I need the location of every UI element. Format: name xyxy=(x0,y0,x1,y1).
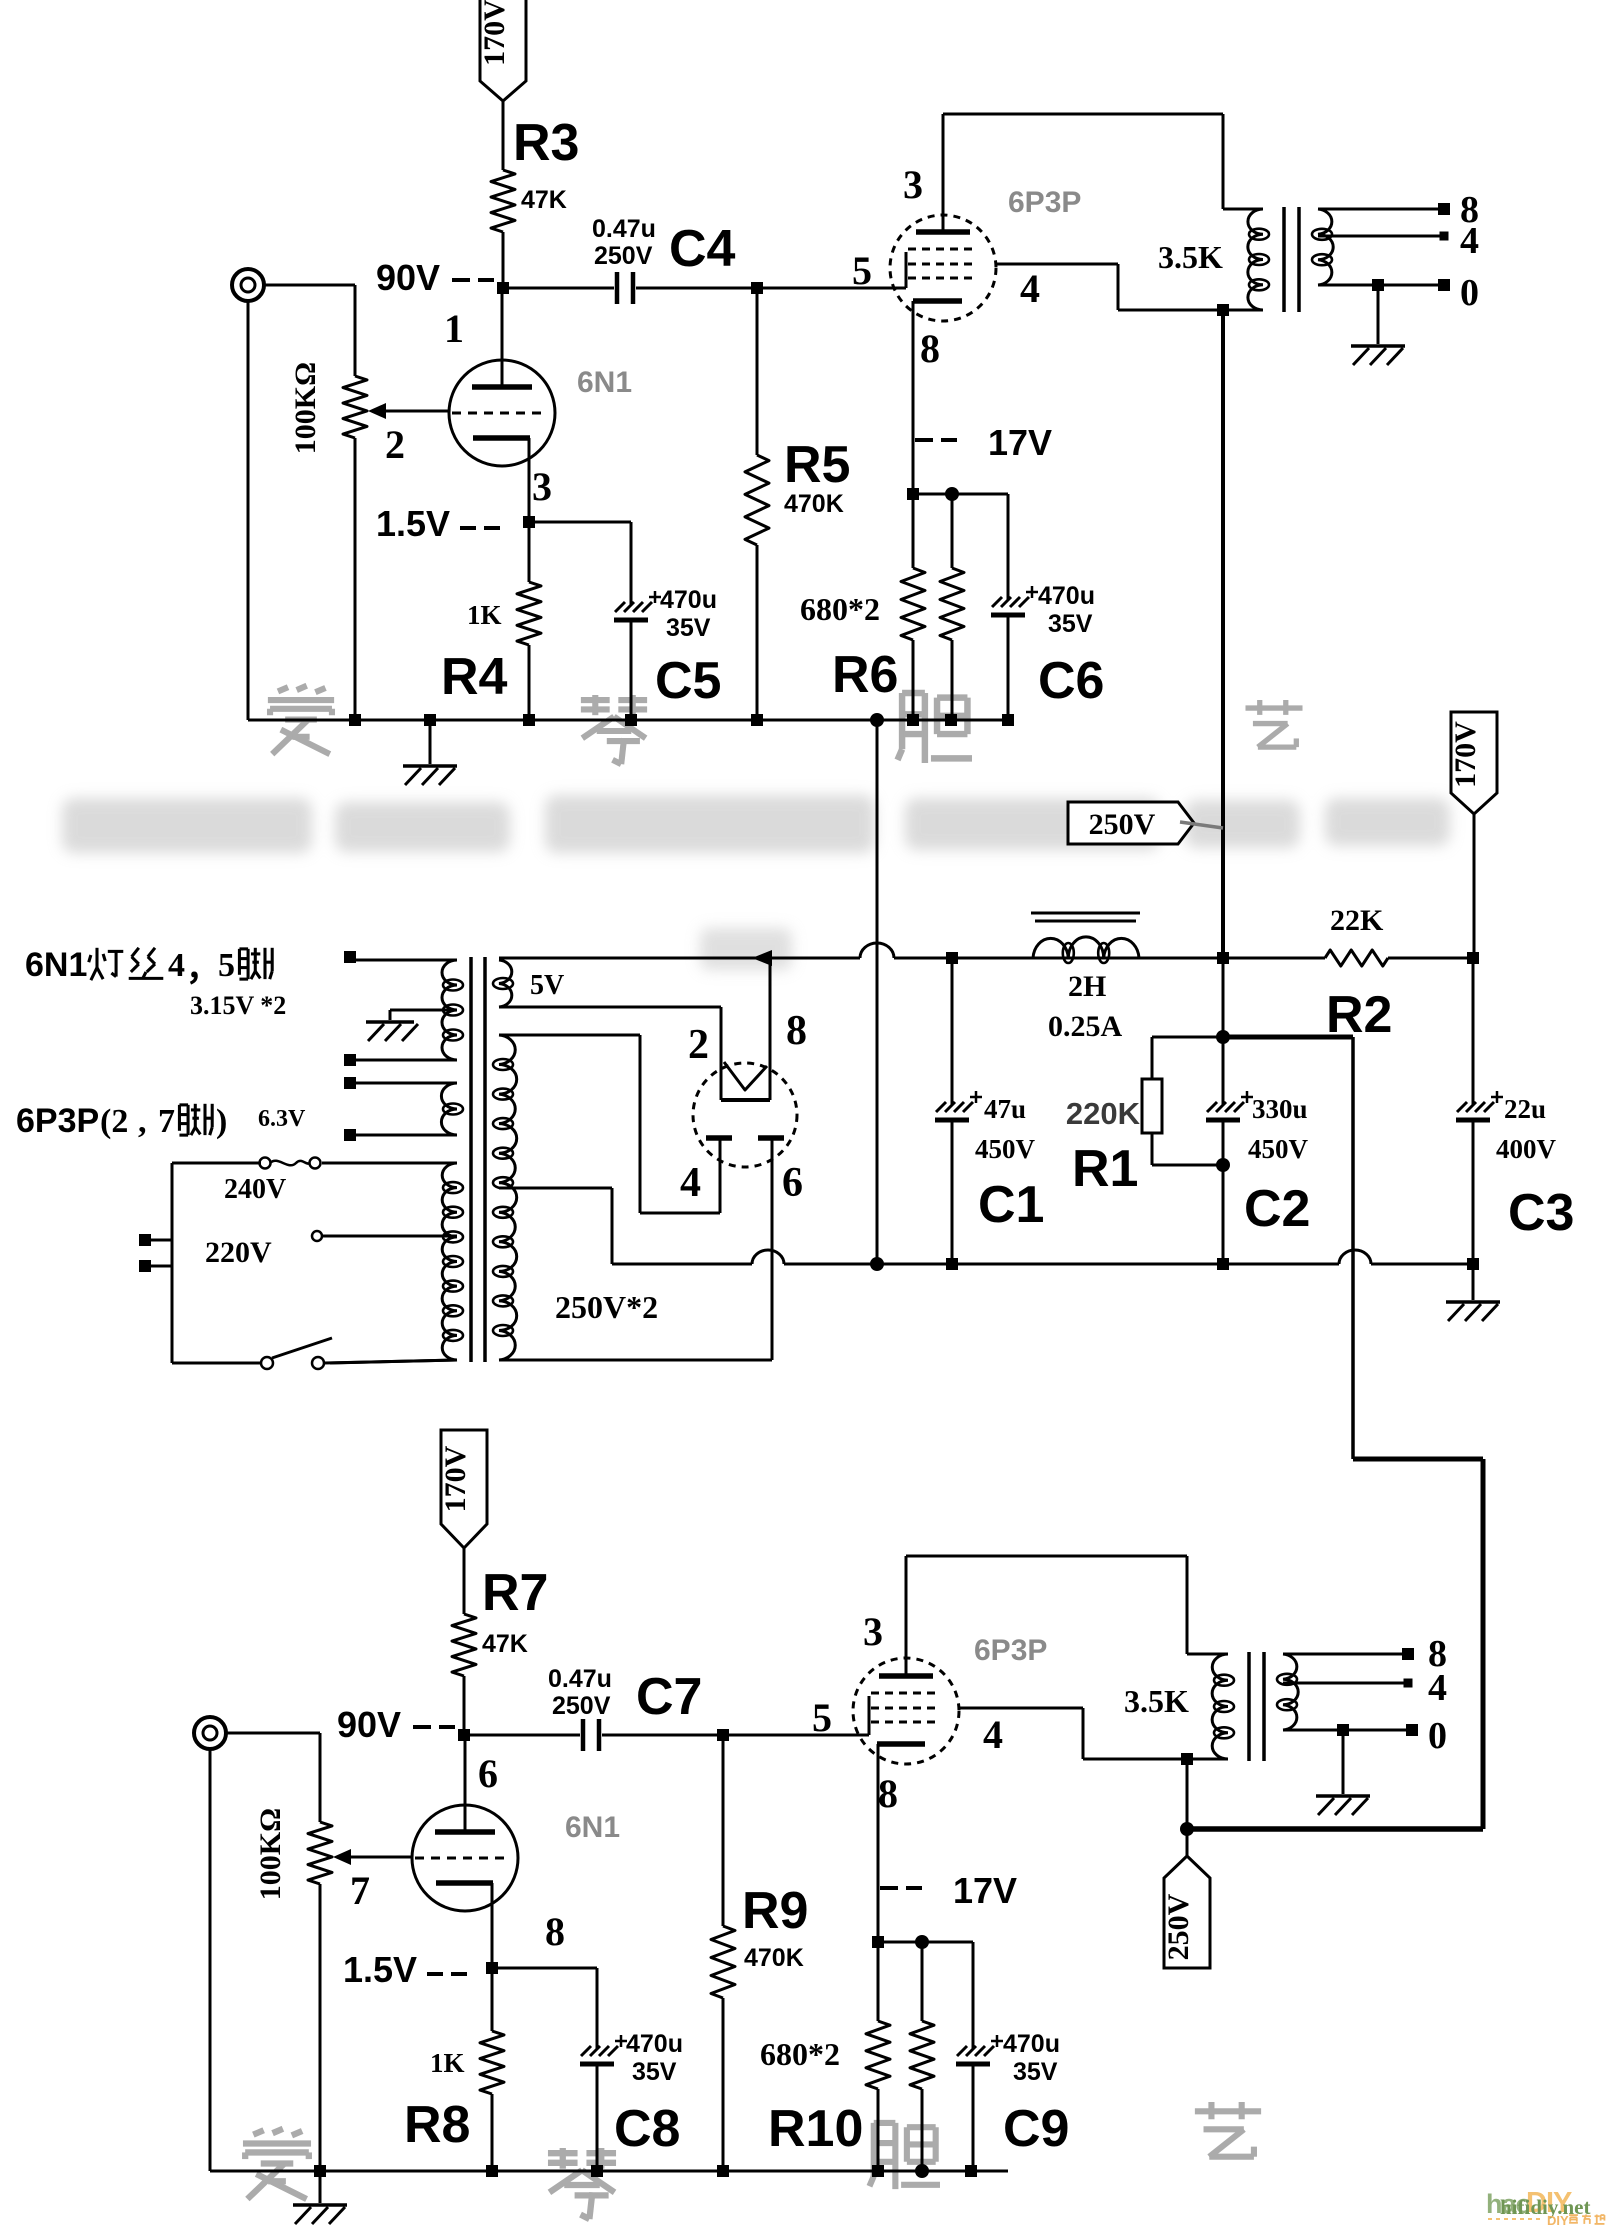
svg-text:250V: 250V xyxy=(552,1692,611,1720)
svg-text:2: 2 xyxy=(385,422,405,467)
svg-text:4: 4 xyxy=(1020,266,1040,311)
wire preamp ground drop xyxy=(870,720,884,1271)
potentiometer 100K (top) xyxy=(289,285,450,720)
svg-text:8: 8 xyxy=(920,326,940,371)
svg-text:C6: C6 xyxy=(1038,652,1104,710)
node 90V (top) xyxy=(376,257,494,298)
svg-text:6N1: 6N1 xyxy=(25,946,87,984)
capacitor C9 xyxy=(956,1942,1069,2171)
svg-text:47K: 47K xyxy=(482,1630,528,1658)
node 1.5V (top) xyxy=(376,503,535,544)
svg-text:170V: 170V xyxy=(439,1445,472,1512)
svg-text:8: 8 xyxy=(545,1909,565,1954)
capacitor C3 xyxy=(1456,958,1574,1270)
wire xyxy=(502,232,505,288)
ground (top OPT) xyxy=(1351,279,1405,365)
svg-text:240V: 240V xyxy=(224,1174,286,1205)
node F junction xyxy=(872,1935,973,1949)
svg-text:0.25A: 0.25A xyxy=(1048,1010,1123,1043)
wire xyxy=(464,1734,580,1737)
node 220V tap xyxy=(205,1231,457,1269)
svg-text:,: , xyxy=(138,1103,147,1140)
watermark blur band xyxy=(62,795,1450,970)
svg-text:6: 6 xyxy=(478,1751,498,1796)
wire xyxy=(463,1548,466,1614)
wire plate top (bottom) xyxy=(906,1555,1187,1558)
node A junction xyxy=(497,282,509,294)
capacitor C6 xyxy=(991,494,1104,720)
wire B+ drop (top OPT to supply) xyxy=(1221,310,1225,958)
node B junction xyxy=(751,282,763,294)
ground (main bus right) xyxy=(1446,1264,1500,1321)
triode U1 6N1 (top) xyxy=(444,288,632,522)
resistor R7 xyxy=(452,1564,548,1676)
transformer T3 power core xyxy=(471,957,485,1362)
svg-text:17V: 17V xyxy=(988,422,1052,463)
svg-text:220K: 220K xyxy=(1066,1096,1141,1131)
svg-text:47K: 47K xyxy=(521,186,567,214)
label 6N1 heater xyxy=(25,946,272,988)
wire xyxy=(264,284,355,287)
svg-text:6: 6 xyxy=(782,1160,803,1206)
node 17V (top) xyxy=(915,422,1052,463)
svg-text:1K: 1K xyxy=(467,600,502,630)
resistor R6 xyxy=(800,494,925,720)
svg-text:0.47u: 0.47u xyxy=(548,1665,612,1693)
svg-text:250V: 250V xyxy=(1089,808,1156,841)
svg-text:，: ， xyxy=(186,951,220,988)
node D junction xyxy=(458,1729,470,1741)
input jack (bottom) xyxy=(194,1717,226,1749)
wire xyxy=(723,1734,869,1737)
svg-text:22u: 22u xyxy=(1504,1094,1546,1124)
svg-text:8: 8 xyxy=(878,1771,898,1816)
svg-text:(2: (2 xyxy=(100,1103,128,1140)
winding 6.3V xyxy=(344,1077,463,1141)
svg-text:4: 4 xyxy=(680,1160,701,1206)
svg-text:220V: 220V xyxy=(205,1236,272,1269)
winding mains primary xyxy=(322,1163,463,1363)
resistor R8 xyxy=(404,1968,504,2171)
node 90V (bottom) xyxy=(337,1704,455,1745)
svg-text:6N1: 6N1 xyxy=(577,366,632,399)
svg-text:330u: 330u xyxy=(1252,1094,1308,1124)
resistor R9 xyxy=(711,1735,808,2171)
svg-text:C7: C7 xyxy=(636,1668,702,1726)
ground (filament center tap) xyxy=(366,1010,457,1041)
svg-text:5V: 5V xyxy=(530,970,564,1001)
svg-text:680*2: 680*2 xyxy=(760,2036,840,2072)
svg-text:C9: C9 xyxy=(1003,2100,1069,2158)
watermark row2 xyxy=(243,2102,1261,2219)
wire speaker taps (bottom) xyxy=(1283,1633,1447,1757)
winding 3.15V filament xyxy=(190,951,463,1066)
pentode V2 6P3P (bottom) xyxy=(812,1556,1047,1942)
node 17V (bottom) xyxy=(880,1870,1017,1911)
svg-text:35V: 35V xyxy=(666,614,711,642)
svg-text:R10: R10 xyxy=(768,2100,863,2158)
node E junction xyxy=(717,1729,729,1741)
capacitor C7 xyxy=(548,1665,702,1751)
switch S1 xyxy=(172,1338,457,1369)
ground symbol (bottom channel) xyxy=(293,2171,347,2224)
svg-text:DIY: DIY xyxy=(1547,2213,1569,2228)
svg-text:1.5V: 1.5V xyxy=(343,1949,417,1990)
svg-text:5: 5 xyxy=(852,248,872,293)
node 170V flag (bottom channel) xyxy=(439,1430,487,1548)
svg-text:1.5V: 1.5V xyxy=(376,503,450,544)
svg-text:4: 4 xyxy=(1460,220,1479,262)
svg-text:470K: 470K xyxy=(744,1944,804,1972)
rectifier V3 5Z4P xyxy=(680,958,807,1360)
svg-text:450V: 450V xyxy=(975,1134,1036,1164)
svg-text:R6: R6 xyxy=(832,646,898,704)
svg-text:100KΩ: 100KΩ xyxy=(254,1808,287,1900)
svg-text:6N1: 6N1 xyxy=(565,1811,620,1844)
svg-text:0: 0 xyxy=(1460,272,1479,314)
fuse F1 xyxy=(172,1158,321,1206)
svg-text:R4: R4 xyxy=(441,648,508,706)
resistor R3 xyxy=(491,114,579,232)
capacitor C5 xyxy=(529,522,721,720)
wire xyxy=(503,287,614,290)
svg-text:4: 4 xyxy=(1428,1667,1447,1709)
wire HV bottom to plate 6 xyxy=(499,1359,772,1362)
svg-text:35V: 35V xyxy=(632,2058,677,2086)
svg-text:2H: 2H xyxy=(1068,970,1106,1003)
svg-text:7: 7 xyxy=(158,1103,175,1140)
svg-text:C2: C2 xyxy=(1244,1180,1310,1238)
capacitor C4 xyxy=(592,215,736,304)
svg-text:5: 5 xyxy=(812,1695,832,1740)
svg-text:250V: 250V xyxy=(1162,1893,1195,1960)
svg-text:0.47u: 0.47u xyxy=(592,215,656,243)
input jack (top) xyxy=(232,269,264,301)
resistor R10b parallel xyxy=(910,1942,934,2171)
svg-text:): ) xyxy=(216,1103,227,1140)
svg-text:3: 3 xyxy=(863,1609,883,1654)
svg-text:C5: C5 xyxy=(655,652,721,710)
svg-text:R3: R3 xyxy=(513,114,579,172)
svg-text:R8: R8 xyxy=(404,2096,470,2154)
svg-text:7: 7 xyxy=(350,1868,370,1913)
node 170V flag (right) xyxy=(1449,712,1497,964)
capacitor C2 xyxy=(1206,958,1310,1270)
svg-text:R9: R9 xyxy=(742,1882,808,1940)
svg-text:1K: 1K xyxy=(430,2048,465,2078)
svg-text:C3: C3 xyxy=(1508,1184,1574,1242)
node 250V flag (middle) xyxy=(1068,802,1223,844)
wire xyxy=(636,287,757,290)
triode U2 6N1 (bottom) xyxy=(412,1735,620,1968)
resistor R4 xyxy=(441,522,541,720)
svg-text:450V: 450V xyxy=(1248,1134,1309,1164)
transformer T1 output (top) xyxy=(1158,114,1333,316)
svg-text:470u: 470u xyxy=(1038,582,1095,610)
svg-text:2: 2 xyxy=(688,1022,709,1068)
svg-text:470K: 470K xyxy=(784,490,844,518)
svg-text:R5: R5 xyxy=(784,436,850,494)
svg-text:470u: 470u xyxy=(1003,2030,1060,2058)
svg-text:250V*2: 250V*2 xyxy=(555,1289,658,1325)
ground (bottom OPT) xyxy=(1316,1724,1370,1815)
svg-text:3.5K: 3.5K xyxy=(1158,239,1223,275)
svg-text:3.5K: 3.5K xyxy=(1124,1683,1189,1719)
winding 250V*2 HV xyxy=(493,1035,658,1360)
wire speaker taps (top) xyxy=(1318,189,1479,314)
capacitor C1 xyxy=(935,952,1044,1270)
watermark row1 xyxy=(268,686,1303,764)
svg-text:C8: C8 xyxy=(614,2100,680,2158)
svg-text:170V: 170V xyxy=(478,0,511,66)
svg-text:170V: 170V xyxy=(1449,721,1482,788)
resistor R10 xyxy=(760,1942,890,2171)
svg-text:4: 4 xyxy=(983,1712,1003,1757)
node 1.5V (bottom) xyxy=(343,1949,498,1990)
ground symbol (top channel) xyxy=(403,720,457,785)
ground bus (top channel) xyxy=(248,301,1014,727)
svg-text:8: 8 xyxy=(786,1008,807,1054)
winding 5V rectifier filament xyxy=(493,960,564,1007)
svg-text:3.15V *2: 3.15V *2 xyxy=(190,991,286,1020)
wire B+ feed to bottom channel xyxy=(1187,1037,1483,1829)
node 170V flag (top left channel) xyxy=(478,0,526,101)
svg-text:17V: 17V xyxy=(953,1870,1017,1911)
logo haoDIY / hifidiy.net xyxy=(1486,2187,1604,2228)
svg-text:4: 4 xyxy=(168,947,185,984)
resistor R2 22K xyxy=(1223,904,1473,1044)
wire 5V top / B+ bus left xyxy=(499,957,860,960)
label 6P3P heater xyxy=(16,1102,306,1140)
wire xyxy=(463,1676,466,1735)
wire plate top xyxy=(943,113,1223,116)
svg-text:R1: R1 xyxy=(1072,1140,1138,1198)
svg-text:47u: 47u xyxy=(984,1094,1026,1124)
svg-text:680*2: 680*2 xyxy=(800,591,880,627)
resistor R6b parallel xyxy=(940,494,964,720)
svg-text:470u: 470u xyxy=(660,586,717,614)
svg-text:6P3P: 6P3P xyxy=(1008,186,1081,219)
wire xyxy=(757,287,906,290)
resistor R5 xyxy=(745,288,850,720)
capacitor C8 xyxy=(492,1968,683,2171)
svg-text:35V: 35V xyxy=(1048,610,1093,638)
svg-text:6.3V: 6.3V xyxy=(258,1106,306,1132)
node 250V flag (bottom) xyxy=(1162,1759,1210,1968)
svg-text:C1: C1 xyxy=(978,1176,1044,1234)
svg-text:400V: 400V xyxy=(1496,1134,1557,1164)
svg-text:5: 5 xyxy=(218,947,235,984)
wire 5V bottom to pin2 xyxy=(499,1007,721,1092)
wire HV center tap to ground bus xyxy=(499,1188,1475,1264)
pentode V1 6P3P (top) xyxy=(852,114,1081,494)
wire HV top to plate 4 xyxy=(499,1035,720,1213)
wire xyxy=(502,101,505,170)
svg-text:90V: 90V xyxy=(337,1704,401,1745)
svg-text:22K: 22K xyxy=(1330,904,1384,937)
mains plug xyxy=(139,1163,172,1363)
svg-text:3: 3 xyxy=(532,464,552,509)
wire screen grid jog xyxy=(996,264,1223,310)
svg-text:C4: C4 xyxy=(669,220,736,278)
svg-text:100KΩ: 100KΩ xyxy=(289,362,322,454)
transformer T2 output (bottom) xyxy=(1124,1556,1298,1765)
inductor L1 choke 2H xyxy=(1031,913,1229,1043)
svg-text:470u: 470u xyxy=(626,2030,683,2058)
wire xyxy=(226,1732,320,1735)
svg-text:6P3P: 6P3P xyxy=(974,1634,1047,1667)
wire xyxy=(602,1734,723,1737)
potentiometer 100K (bottom) xyxy=(254,1733,413,2171)
node C junction xyxy=(907,487,1008,501)
svg-text:35V: 35V xyxy=(1013,2058,1058,2086)
resistor R1 220K xyxy=(1066,1030,1230,1198)
svg-text:1: 1 xyxy=(444,306,464,351)
svg-text:R7: R7 xyxy=(482,1564,548,1622)
svg-text:90V: 90V xyxy=(376,257,440,298)
ground bus (bottom channel) xyxy=(210,1749,1008,2178)
svg-text:250V: 250V xyxy=(594,242,653,270)
svg-text:6P3P: 6P3P xyxy=(16,1102,99,1140)
wire screen grid jog (bottom) xyxy=(959,1708,1187,1759)
svg-text:3: 3 xyxy=(903,162,923,207)
svg-text:0: 0 xyxy=(1428,1715,1447,1757)
wire hop over ground drop xyxy=(752,943,1223,966)
